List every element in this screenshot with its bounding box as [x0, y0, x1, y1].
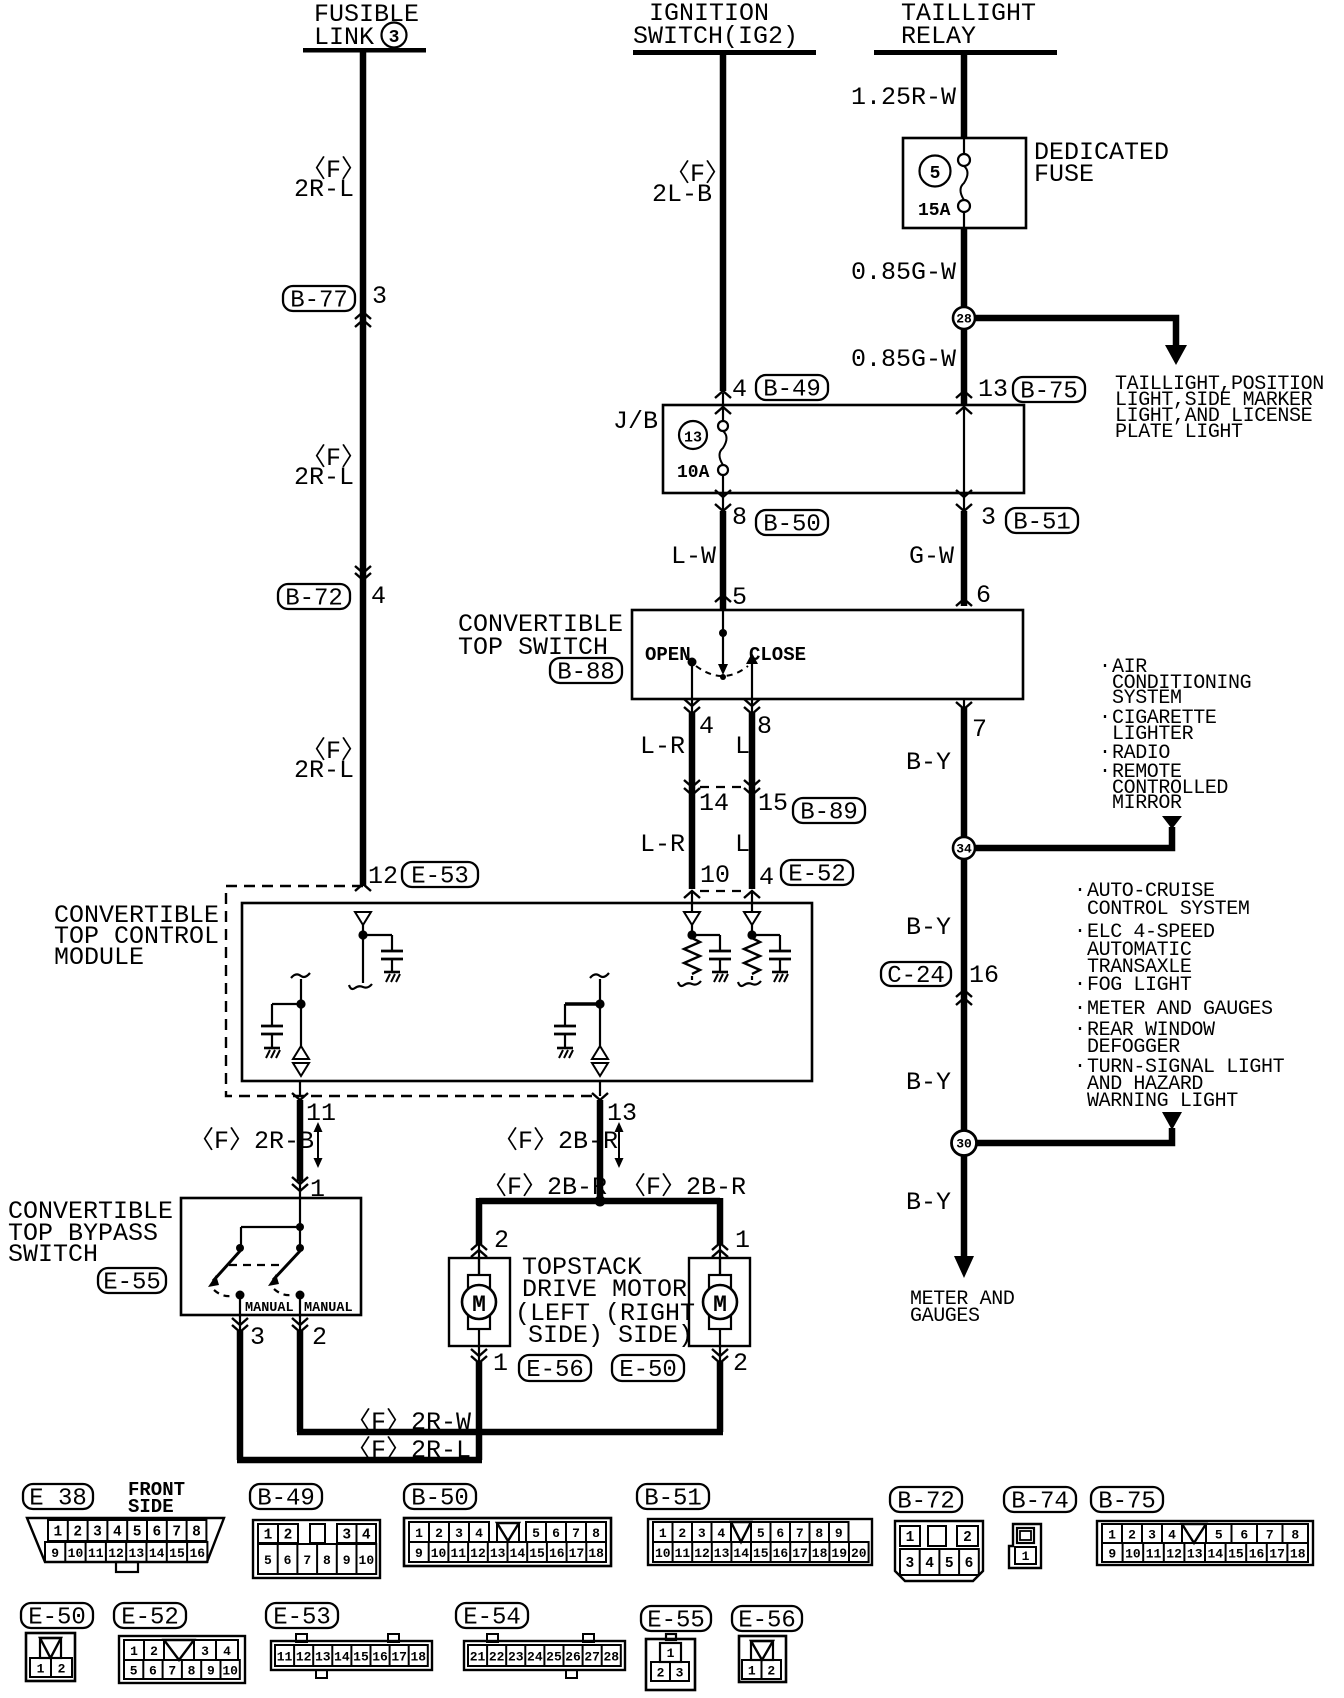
svg-text:9: 9	[343, 1553, 351, 1568]
svg-text:7: 7	[572, 1526, 580, 1541]
svg-text:B-51: B-51	[644, 1486, 702, 1513]
svg-text:11: 11	[277, 1650, 293, 1665]
module pin 12 connector E-53	[355, 862, 478, 891]
svg-text:8: 8	[757, 712, 772, 741]
svg-text:6: 6	[776, 1526, 784, 1541]
svg-text:5: 5	[930, 164, 941, 184]
svg-text:J/B: J/B	[613, 407, 658, 436]
svg-text:16: 16	[1249, 1547, 1265, 1562]
svg-text:11: 11	[306, 1099, 336, 1128]
svg-text:10: 10	[700, 861, 730, 890]
power source header TAILLIGHT RELAY	[874, 0, 1057, 55]
connector view B-75	[1091, 1487, 1313, 1565]
svg-text:2: 2	[150, 1644, 158, 1659]
wire L-W to convertible top switch	[671, 511, 747, 612]
svg-text:·: ·	[1074, 997, 1086, 1020]
svg-text:17: 17	[569, 1546, 585, 1561]
wire label (F)2R-L middle	[294, 443, 366, 492]
convertible top switch box B-88	[458, 610, 1023, 699]
svg-text:12: 12	[108, 1546, 124, 1561]
svg-text:13: 13	[490, 1546, 506, 1561]
svg-text:2: 2	[963, 1530, 972, 1546]
connector E-52 into module	[684, 860, 853, 898]
svg-text:21: 21	[470, 1650, 486, 1665]
svg-text:10: 10	[222, 1664, 238, 1679]
svg-text:7: 7	[172, 1525, 181, 1541]
svg-text:3: 3	[981, 503, 996, 532]
svg-text:12: 12	[1166, 1547, 1182, 1562]
svg-text:G-W: G-W	[909, 542, 954, 571]
wire 0.85G-W upper	[851, 228, 964, 405]
svg-text:B-74: B-74	[1011, 1489, 1069, 1516]
svg-text:3: 3	[455, 1526, 463, 1541]
svg-text:·: ·	[1074, 1055, 1086, 1078]
svg-text:16: 16	[189, 1546, 205, 1561]
svg-text:3: 3	[1148, 1528, 1156, 1543]
svg-text:1: 1	[54, 1525, 63, 1541]
svg-text:14: 14	[149, 1546, 165, 1561]
svg-text:〈F〉2R-W: 〈F〉2R-W	[346, 1407, 471, 1437]
bypass switch internal contacts	[208, 1198, 353, 1316]
svg-text:MANUAL: MANUAL	[304, 1301, 353, 1316]
svg-text:1: 1	[1022, 1549, 1030, 1564]
svg-text:10: 10	[431, 1546, 447, 1561]
svg-text:4: 4	[371, 582, 386, 611]
switch contact OPEN	[645, 644, 697, 698]
svg-text:11: 11	[450, 1546, 466, 1561]
module output network pin 11	[261, 973, 310, 1076]
svg-text:〈F〉2B-R: 〈F〉2B-R	[482, 1172, 607, 1202]
svg-text:4: 4	[1168, 1528, 1176, 1543]
svg-text:6: 6	[976, 581, 991, 610]
connector label E-55	[98, 1268, 166, 1297]
svg-text:8: 8	[815, 1526, 823, 1541]
svg-text:15: 15	[753, 1546, 769, 1561]
connector view B-50	[404, 1484, 611, 1566]
svg-text:28: 28	[603, 1650, 619, 1665]
svg-text:17: 17	[1269, 1547, 1285, 1562]
svg-text:L-R: L-R	[640, 732, 685, 761]
svg-text:13: 13	[607, 1099, 637, 1128]
svg-text:1: 1	[415, 1526, 423, 1541]
svg-text:4: 4	[475, 1526, 483, 1541]
node 30	[952, 1131, 977, 1156]
svg-text:6: 6	[153, 1525, 162, 1541]
module input network x=752	[738, 891, 791, 986]
svg-text:2: 2	[678, 1526, 686, 1541]
wire pin 1 into bypass switch	[292, 1175, 325, 1204]
connector view E-53	[266, 1603, 432, 1678]
svg-text:L: L	[735, 830, 750, 859]
svg-text:16: 16	[773, 1546, 789, 1561]
connector view E-52	[114, 1603, 245, 1683]
svg-text:·: ·	[1099, 706, 1111, 729]
connector view B-49	[250, 1484, 380, 1578]
connector B-72 in-line	[278, 566, 386, 613]
connector view B-72	[890, 1487, 983, 1581]
svg-text:0.85G-W: 0.85G-W	[851, 258, 956, 287]
module pin 11 wire (F)2R-B	[189, 1081, 336, 1198]
wire (F)2B-R split to both motors	[479, 1172, 746, 1202]
bidirectional arrow pin 13	[615, 1122, 624, 1168]
convertible top control module dashed boundary	[226, 886, 598, 1096]
svg-text:2: 2	[312, 1323, 327, 1352]
svg-text:B-50: B-50	[763, 512, 821, 539]
wire to right motor pin 1	[712, 1198, 750, 1278]
svg-text:7: 7	[796, 1526, 804, 1541]
svg-text:2: 2	[58, 1662, 66, 1677]
svg-text:1: 1	[493, 1349, 508, 1378]
wire label (F)2R-L upper	[294, 155, 366, 204]
svg-text:RELAY: RELAY	[901, 22, 976, 51]
junction dot motor feed	[595, 1196, 606, 1207]
svg-text:15: 15	[758, 789, 788, 818]
svg-text:5: 5	[264, 1553, 272, 1568]
label DEDICATED FUSE	[1034, 138, 1169, 189]
in-line connector B-89 pins 14 15	[684, 780, 865, 827]
svg-text:L-R: L-R	[640, 830, 685, 859]
svg-text:〈F〉2B-R: 〈F〉2B-R	[621, 1172, 746, 1202]
wire fusible link vertical 2R-L	[360, 52, 367, 886]
svg-text:26: 26	[565, 1650, 581, 1665]
svg-text:B-49: B-49	[257, 1486, 315, 1513]
module pin 13 wire (F)2B-R	[493, 1081, 637, 1201]
svg-text:5: 5	[130, 1664, 138, 1679]
bidirectional arrow pin 11	[314, 1122, 323, 1168]
fuse 13 10A inside J/B	[677, 393, 731, 492]
module inner box	[242, 903, 812, 1081]
svg-text:OPEN: OPEN	[645, 644, 691, 666]
arrow to meter and gauges	[910, 1256, 1014, 1328]
svg-text:9: 9	[415, 1546, 423, 1561]
svg-text:34: 34	[956, 842, 972, 857]
svg-text:10: 10	[359, 1553, 375, 1568]
wire (F)2R-L bypass pin3 to left motor	[237, 1435, 482, 1465]
svg-text:4: 4	[732, 375, 747, 404]
svg-text:E-52: E-52	[121, 1605, 179, 1632]
connector view E-56	[732, 1606, 802, 1682]
destination text taillight position light	[1115, 373, 1324, 444]
branch arrow from node 28 to taillight circuits	[975, 318, 1187, 365]
svg-text:B-Y: B-Y	[906, 748, 951, 777]
svg-text:B-72: B-72	[897, 1489, 955, 1516]
accessory list auto-cruise etc	[1074, 879, 1285, 1113]
connector view E-55	[641, 1606, 711, 1690]
svg-text:13: 13	[978, 375, 1008, 404]
svg-text:MODULE: MODULE	[54, 943, 144, 972]
svg-text:E-56: E-56	[738, 1608, 796, 1635]
svg-text:13: 13	[1187, 1547, 1203, 1562]
wire label (F)2L-B	[652, 159, 730, 209]
svg-text:2R-L: 2R-L	[294, 175, 354, 204]
svg-text:E-53: E-53	[273, 1605, 331, 1632]
wire 0.85G-W into J/B pin 13 B-75	[851, 345, 1085, 406]
svg-text:CLOSE: CLOSE	[749, 644, 806, 666]
module input network pin 12	[349, 912, 403, 989]
svg-text:4: 4	[113, 1525, 122, 1541]
svg-text:M: M	[713, 1292, 727, 1318]
wire label (F)2R-L lower	[294, 736, 366, 785]
svg-text:4: 4	[223, 1644, 231, 1659]
dedicated fuse 5 15A	[903, 138, 1026, 228]
svg-text:3: 3	[93, 1525, 102, 1541]
svg-text:·: ·	[1074, 920, 1086, 943]
svg-text:2: 2	[1128, 1528, 1136, 1543]
switch wiper from pin 5	[715, 595, 731, 680]
svg-text:16: 16	[969, 961, 999, 990]
bypass pin 3 wire	[232, 1315, 265, 1460]
svg-text:9: 9	[207, 1664, 215, 1679]
svg-text:15: 15	[529, 1546, 545, 1561]
svg-text:1: 1	[667, 1646, 675, 1661]
svg-text:3: 3	[342, 1528, 351, 1544]
bypass switch label	[8, 1197, 173, 1269]
svg-text:E-54: E-54	[463, 1605, 521, 1632]
svg-text:MIRROR: MIRROR	[1112, 792, 1182, 815]
svg-text:M: M	[472, 1292, 486, 1318]
svg-text:15: 15	[169, 1546, 185, 1561]
connector B-51 pin 3 below J/B	[956, 490, 1078, 537]
svg-text:13: 13	[714, 1546, 730, 1561]
connector C-24 pin 16	[881, 961, 999, 1005]
svg-text:2R-L: 2R-L	[294, 756, 354, 785]
svg-text:15: 15	[1228, 1547, 1244, 1562]
switch travel dashed arc	[696, 666, 748, 676]
svg-text:4: 4	[699, 712, 714, 741]
topstack drive motor left E-56	[449, 1258, 510, 1346]
svg-text:9: 9	[1108, 1547, 1116, 1562]
svg-text:19: 19	[831, 1546, 847, 1561]
svg-text:〈F〉2B-R: 〈F〉2B-R	[493, 1126, 618, 1156]
svg-text:1: 1	[264, 1528, 273, 1544]
svg-text:12: 12	[368, 862, 398, 891]
svg-text:1: 1	[735, 1226, 750, 1255]
svg-text:SIDE: SIDE	[128, 1496, 174, 1518]
connector B-50 pin 8 below J/B	[715, 490, 828, 539]
svg-text:E-50: E-50	[619, 1357, 677, 1384]
node 28	[953, 307, 975, 329]
svg-text:E-55: E-55	[647, 1608, 705, 1635]
svg-text:2: 2	[73, 1525, 82, 1541]
svg-text:7: 7	[303, 1553, 311, 1568]
svg-text:B-51: B-51	[1013, 510, 1071, 537]
svg-text:20: 20	[851, 1546, 867, 1561]
wire L-R to module pin 10	[640, 787, 730, 890]
svg-text:8: 8	[592, 1526, 600, 1541]
svg-text:6: 6	[552, 1526, 560, 1541]
svg-text:24: 24	[527, 1650, 543, 1665]
svg-text:B-Y: B-Y	[906, 1188, 951, 1217]
svg-text:SWITCH(IG2): SWITCH(IG2)	[633, 22, 798, 51]
svg-text:12: 12	[296, 1650, 312, 1665]
svg-text:L-W: L-W	[671, 542, 716, 571]
svg-text:15A: 15A	[918, 201, 951, 221]
svg-text:3: 3	[698, 1526, 706, 1541]
svg-text:4: 4	[362, 1528, 371, 1544]
bypass pin 2 wire	[292, 1315, 327, 1432]
module label	[54, 901, 219, 972]
svg-text:5: 5	[1215, 1528, 1223, 1543]
svg-text:E-56: E-56	[526, 1357, 584, 1384]
module input network x=692	[678, 891, 731, 986]
motor caption	[515, 1253, 695, 1350]
svg-text:10: 10	[655, 1546, 671, 1561]
svg-text:1: 1	[1108, 1528, 1116, 1543]
svg-text:E-55: E-55	[103, 1270, 161, 1297]
svg-text:B-Y: B-Y	[906, 1068, 951, 1097]
svg-text:13: 13	[129, 1546, 145, 1561]
svg-text:16: 16	[549, 1546, 565, 1561]
svg-text:18: 18	[410, 1650, 426, 1665]
connector label E-50	[612, 1355, 684, 1384]
svg-text:9: 9	[835, 1526, 843, 1541]
svg-text:11: 11	[1146, 1547, 1162, 1562]
module output network pin 13	[554, 973, 609, 1076]
svg-text:12: 12	[470, 1546, 486, 1561]
svg-text:·: ·	[1099, 655, 1111, 678]
svg-text:2: 2	[494, 1226, 509, 1255]
connector B-77 in-line	[283, 282, 387, 327]
branch arrow from node 34 to accessory circuits	[975, 816, 1182, 848]
connector view B-74	[1004, 1487, 1076, 1568]
svg-text:14: 14	[334, 1650, 350, 1665]
svg-text:8: 8	[732, 503, 747, 532]
svg-text:10: 10	[68, 1546, 84, 1561]
svg-text:B-Y: B-Y	[906, 913, 951, 942]
svg-text:6: 6	[284, 1553, 292, 1568]
svg-text:23: 23	[508, 1650, 524, 1665]
svg-text:11: 11	[88, 1546, 104, 1561]
bypass switch box	[181, 1198, 361, 1315]
svg-text:SWITCH: SWITCH	[8, 1240, 98, 1269]
svg-text:·: ·	[1074, 973, 1086, 996]
svg-text:PLATE LIGHT: PLATE LIGHT	[1115, 421, 1243, 444]
svg-text:11: 11	[675, 1546, 691, 1561]
wire L to module pin 4	[735, 787, 774, 892]
svg-text:18: 18	[1290, 1547, 1306, 1562]
svg-text:0.85G-W: 0.85G-W	[851, 345, 956, 374]
svg-text:〈F〉2R-L: 〈F〉2R-L	[346, 1435, 471, 1465]
svg-text:4: 4	[717, 1526, 725, 1541]
svg-text:B-77: B-77	[290, 288, 348, 315]
svg-text:2: 2	[284, 1528, 293, 1544]
svg-text:7: 7	[972, 715, 987, 744]
svg-text:METER AND GAUGES: METER AND GAUGES	[1087, 998, 1273, 1021]
svg-text:4: 4	[925, 1556, 934, 1572]
svg-text:1: 1	[748, 1664, 756, 1679]
svg-text:SIDE) SIDE): SIDE) SIDE)	[528, 1321, 693, 1350]
svg-text:14: 14	[733, 1546, 749, 1561]
svg-text:16: 16	[372, 1650, 388, 1665]
svg-text:18: 18	[812, 1546, 828, 1561]
svg-text:1: 1	[37, 1662, 45, 1677]
svg-text:MANUAL: MANUAL	[245, 1301, 294, 1316]
svg-text:1: 1	[659, 1526, 667, 1541]
svg-text:B-72: B-72	[285, 586, 343, 613]
svg-text:17: 17	[792, 1546, 808, 1561]
svg-text:12: 12	[694, 1546, 710, 1561]
svg-text:E-52: E-52	[788, 862, 846, 889]
svg-text:27: 27	[584, 1650, 600, 1665]
svg-text:4: 4	[759, 863, 774, 892]
svg-text:WARNING LIGHT: WARNING LIGHT	[1087, 1090, 1238, 1113]
switch contact CLOSE	[746, 644, 806, 698]
junction block J/B	[613, 405, 1024, 493]
svg-text:·: ·	[1074, 1018, 1086, 1041]
connector view E-38	[23, 1479, 224, 1572]
power source header IGNITION SWITCH(IG2)	[633, 0, 816, 55]
svg-text:3: 3	[372, 282, 387, 311]
svg-text:5: 5	[133, 1525, 142, 1541]
svg-text:E-50: E-50	[28, 1605, 86, 1632]
svg-text:7: 7	[1266, 1528, 1274, 1543]
left motor pin 1	[471, 1346, 508, 1460]
topstack drive motor right E-50	[689, 1258, 750, 1346]
svg-text:E 38: E 38	[29, 1486, 87, 1513]
svg-text:B-88: B-88	[557, 660, 615, 687]
wire to left motor pin 2	[471, 1198, 509, 1278]
svg-text:14: 14	[699, 789, 729, 818]
svg-text:8: 8	[192, 1525, 201, 1541]
svg-text:C-24: C-24	[887, 963, 945, 990]
wire (F)2R-W bypass pin2 to right motor	[297, 1407, 723, 1437]
svg-text:15: 15	[353, 1650, 369, 1665]
svg-text:1: 1	[130, 1644, 138, 1659]
wire ignition switch 2L-B	[720, 53, 727, 391]
svg-text:8: 8	[188, 1664, 196, 1679]
svg-text:30: 30	[956, 1137, 972, 1152]
svg-text:2: 2	[657, 1666, 665, 1681]
svg-text:17: 17	[391, 1650, 407, 1665]
svg-text:E-53: E-53	[411, 864, 469, 891]
svg-text:14: 14	[1207, 1547, 1223, 1562]
svg-text:28: 28	[956, 312, 972, 327]
svg-text:5: 5	[945, 1556, 954, 1572]
svg-text:2: 2	[733, 1349, 748, 1378]
svg-text:B-75: B-75	[1098, 1489, 1156, 1516]
svg-text:3: 3	[905, 1556, 914, 1572]
svg-text:6: 6	[965, 1556, 974, 1572]
svg-text:2R-L: 2R-L	[294, 463, 354, 492]
J/B right pass-through wire	[956, 393, 972, 492]
svg-text:8: 8	[323, 1553, 331, 1568]
svg-text:B-50: B-50	[411, 1486, 469, 1513]
svg-text:2L-B: 2L-B	[652, 180, 712, 209]
svg-text:FOG LIGHT: FOG LIGHT	[1087, 974, 1192, 997]
wire G-W to convertible top switch	[909, 511, 991, 610]
connector view B-51	[637, 1484, 872, 1565]
svg-text:5: 5	[532, 1526, 540, 1541]
svg-text:3: 3	[676, 1666, 684, 1681]
connector label E-56	[519, 1355, 591, 1384]
svg-text:LINK: LINK	[314, 23, 374, 52]
connector view E-54	[456, 1603, 625, 1678]
wire B-Y pin 7 below switch	[906, 699, 987, 1258]
svg-text:CONTROL SYSTEM: CONTROL SYSTEM	[1087, 898, 1249, 921]
svg-text:FUSE: FUSE	[1034, 160, 1094, 189]
svg-text:〈F〉2R-B: 〈F〉2R-B	[189, 1126, 314, 1156]
connector label B-88	[550, 658, 622, 687]
svg-text:B-75: B-75	[1020, 379, 1078, 406]
connector view E-50	[21, 1603, 93, 1681]
svg-text:25: 25	[546, 1650, 562, 1665]
svg-text:3: 3	[250, 1323, 265, 1352]
wire 1.25R-W from taillight relay	[851, 55, 964, 145]
svg-text:1: 1	[310, 1175, 325, 1204]
svg-text:10A: 10A	[677, 463, 710, 483]
connector B-49 pin 4 into J/B	[715, 375, 828, 404]
svg-text:6: 6	[149, 1664, 157, 1679]
